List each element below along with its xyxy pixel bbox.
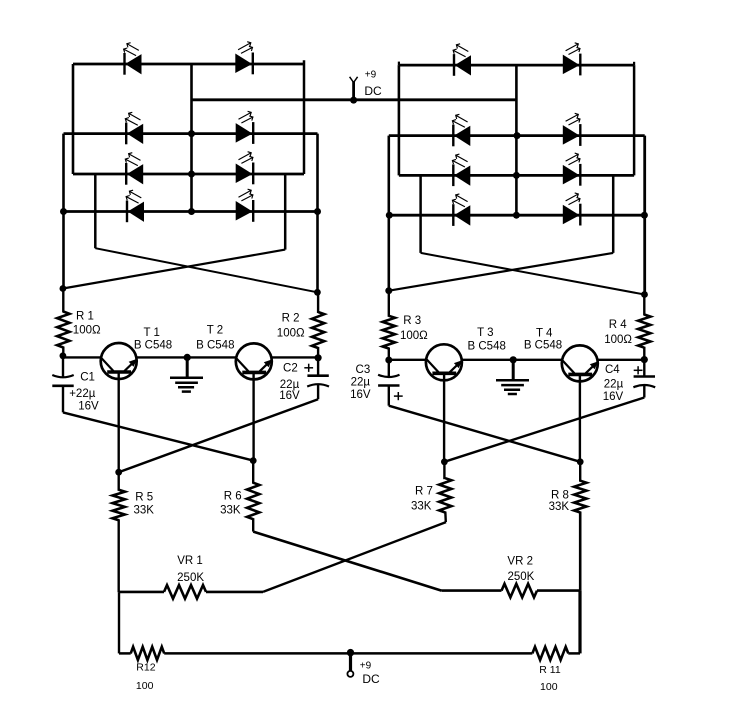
label R7 [415,486,433,498]
wire row4 right-bank [389,214,645,217]
wire R3 to T3 base [389,359,426,361]
svg-text:250K: 250K [177,572,204,584]
label C3 [356,364,371,376]
label VR1 [177,555,203,567]
node row4/left rail right-bank [386,212,393,219]
label C2 [283,363,298,375]
wire R1 to T1 base [63,356,101,358]
label T3 type [468,340,506,352]
wire outer-left rail (row2 to R1) [62,134,65,289]
label DC (bottom) [362,672,380,686]
node R1 top [60,285,67,292]
node R3 top [385,287,392,294]
wire diagonal D to R3 node [389,253,613,291]
label VR2 value [507,571,534,583]
label R3 [403,315,421,327]
node R4 top [641,291,648,298]
wire hang vertical C (row3 down) [419,175,422,253]
label C4 value [604,379,624,391]
wire hang vertical A (row3 down) [94,174,97,248]
node R5 top [115,469,122,476]
svg-text:DC: DC [364,84,382,98]
capacitor C1 [52,356,73,413]
svg-text:33K: 33K [411,501,432,513]
wire T1 to ground [136,356,187,358]
svg-text:R 3: R 3 [403,315,421,327]
svg-text:+9: +9 [365,69,377,80]
label C4 voltage [603,391,624,403]
label R1 [76,310,94,322]
svg-text:B C548: B C548 [196,339,234,351]
node +9 supply tap [350,97,357,104]
wire center vertical right-bank (row1-row4) [515,65,518,215]
label R4 [609,319,628,331]
node row2/center [188,130,195,137]
label T2 type [196,339,234,351]
wire R5 column to bottom rail [118,592,120,653]
label R1 value [73,325,101,337]
wire ground to T2 [187,356,236,358]
label C3 voltage [350,389,371,401]
node row4/left rail [60,208,67,215]
wire T3 down-lead [443,374,445,462]
label VR2 [507,555,533,567]
node R3 bottom [385,357,392,364]
node ground left [184,354,191,361]
svg-text:16V: 16V [279,390,300,402]
wire T2 down-lead [252,373,254,460]
svg-text:C1: C1 [80,371,95,383]
resistor R12 [131,647,165,660]
node R8 top [577,458,584,465]
transistor T3 [426,344,463,380]
plus C4 [634,366,643,374]
svg-text:R 2: R 2 [282,312,300,324]
label C1 voltage [78,401,99,413]
svg-text:100Ω: 100Ω [400,330,428,342]
transistor T4 [562,345,599,381]
svg-text:VR 2: VR 2 [507,555,533,567]
resistor R8 [574,462,586,591]
resistor R7 [439,462,451,522]
svg-text:R 6: R 6 [224,491,242,503]
label R11 value [540,681,558,693]
node row3/center [188,171,195,178]
label R2 [282,312,300,324]
label R7 value [411,501,432,513]
node row4/center [188,208,195,215]
node R4 bottom [641,356,648,363]
svg-text:33K: 33K [220,505,241,517]
wire inner-left vertical (row1-row3) [72,64,75,174]
label R12 value [136,680,154,692]
node row4/center right-bank [513,212,520,219]
wire outer-right rail (row2 to R2) [316,134,319,293]
wire bottom rail right segment [568,652,580,655]
wire T1 down-lead [117,373,119,472]
label T4 [536,328,553,340]
wire diagonal C to R4 node [421,253,645,295]
wire row2 right-bank [389,134,645,137]
node R7 top [441,458,448,465]
transistor T1 [101,343,138,379]
wire T2 to R2 [272,356,319,358]
wire outer-right rail right-bank (row2 to R4) [643,136,646,295]
plus C2 [304,364,313,372]
wire R8 column to bottom rail [578,591,581,654]
node row4/right rail right-bank [641,212,648,219]
svg-text:100Ω: 100Ω [604,334,632,346]
label R3 value [400,330,428,342]
LED D3 [125,112,143,144]
resistor R6 [247,461,259,532]
wire row2 left-bank [64,132,318,135]
wire T4 to R4 [598,359,645,361]
node R6 top [250,457,257,464]
wire row1 right-bank [399,64,634,67]
svg-text:VR 1: VR 1 [177,555,203,567]
potentiometer VR1 [119,585,263,599]
wire bottom rail left segment [119,652,131,655]
ground (left) [170,357,203,391]
label R5 [135,491,153,503]
LED D4 [236,111,254,144]
label T1 type [134,339,172,351]
terminal +9 DC top [350,77,358,83]
svg-text:33K: 33K [549,501,570,513]
svg-text:R12: R12 [136,661,155,673]
node R1 bottom [60,352,67,359]
resistor R5 [113,472,125,592]
svg-text:R 1: R 1 [76,310,94,322]
svg-text:100: 100 [136,680,154,692]
resistor R11 [532,647,568,660]
svg-text:100Ω: 100Ω [73,325,101,337]
svg-text:33K: 33K [133,505,154,517]
resistor R4 [638,295,650,360]
wire hang vertical B (row3 down) [284,174,287,250]
wire row3 right-bank [399,174,634,177]
svg-text:T 1: T 1 [143,327,159,339]
label C4 [605,364,620,376]
svg-text:B C548: B C548 [134,339,172,351]
capacitor C3 [378,360,399,406]
label R6 [224,491,242,503]
label C1 value [69,388,96,400]
label T1 [143,327,159,339]
label T2 [207,325,223,337]
ground (right) [496,360,529,394]
wire R6 to VR2 (diagonal) [253,532,441,591]
node ground right [510,356,517,363]
label R8 [551,489,569,501]
wire T4 down-lead [579,375,581,461]
label DC (top) [364,84,382,98]
LED D8 [236,189,254,222]
svg-text:R 7: R 7 [415,486,433,498]
label R12 [136,661,155,673]
node row3/center right-bank [513,172,520,179]
label R4 value [604,334,632,346]
LED D15 [452,194,470,226]
svg-text:B C548: B C548 [524,339,562,351]
svg-text:+9: +9 [360,660,372,671]
label +9 (top) [365,69,377,80]
resistor R1 [57,289,69,356]
transistor T2 [236,343,273,379]
wire inner-right vertical right-bank (row1-row3) [633,65,636,175]
LED D6 [236,152,254,185]
LED D5 [125,153,143,185]
svg-text:22µ: 22µ [351,376,371,388]
wire row4 left-bank [64,210,318,213]
capacitor C2 [307,358,329,399]
wire C2 to R5 node (diagonal) [119,399,318,472]
wire hang vertical D (row3 down) [612,175,615,253]
label R11 [539,664,561,676]
svg-text:C4: C4 [605,364,620,376]
wire T3 to ground [462,359,514,361]
svg-text:B C548: B C548 [468,340,506,352]
LED D12 [563,113,581,146]
svg-text:R 5: R 5 [135,491,153,503]
wire C3 to R8 node (diagonal) [389,406,580,462]
svg-text:T 3: T 3 [477,327,493,339]
svg-text:100: 100 [540,681,558,693]
wire inner-right vertical (row1-row3) [303,60,306,174]
label VR1 value [177,572,204,584]
svg-text:16V: 16V [603,391,624,403]
resistor R2 [312,292,324,358]
label R8 value [549,501,570,513]
LED D11 [452,114,470,146]
svg-text:R 4: R 4 [609,319,628,331]
svg-text:T 2: T 2 [207,325,223,337]
wire +9 supply rail [192,98,517,101]
label R6 value [220,505,241,517]
wire inner-left vertical right-bank (row1-row3) [398,65,401,175]
node R2 bottom [315,354,322,361]
LED D16 [563,193,581,226]
svg-text:100Ω: 100Ω [277,328,305,340]
svg-text:C2: C2 [283,363,298,375]
node row4/right rail [314,208,321,215]
node row2/center right-bank [514,132,521,139]
LED D2 [235,42,253,75]
wire C1 to R6 node (diagonal) [63,412,253,460]
svg-text:22µ: 22µ [604,379,624,391]
svg-text:C3: C3 [356,364,371,376]
tick row1 right-bank left end [398,62,400,66]
wire center vertical left-bank (row1-row4) [190,64,193,212]
label T3 [477,327,493,339]
svg-text:T 4: T 4 [536,328,553,340]
label +9 (bottom) [360,660,372,671]
resistor R3 [383,291,395,360]
terminal +9 DC bottom [347,671,353,677]
LED D9 [453,44,471,76]
svg-text:16V: 16V [350,389,371,401]
wire outer-left rail right-bank (row2 to R3) [387,136,390,291]
label R2 value [277,328,305,340]
LED D7 [126,190,144,222]
potentiometer VR2 [441,584,580,598]
wire bottom rail center segment [164,652,532,655]
LED D13 [452,154,470,186]
wire C4 to R7 node (diagonal) [444,398,644,462]
svg-text:16V: 16V [78,401,99,413]
label C3 value [351,376,371,388]
svg-text:250K: 250K [507,571,534,583]
LED D14 [563,153,581,186]
svg-text:+22µ: +22µ [69,388,96,400]
label C2 value [280,379,300,391]
LED D10 [563,43,581,76]
svg-text:DC: DC [362,672,380,686]
label C2 voltage [279,390,300,402]
label C1 [80,371,95,383]
svg-text:R 8: R 8 [551,489,569,501]
tick row1 right-bank right end [633,62,635,65]
node R2 top [314,289,321,296]
wire +9 terminal stem [352,81,355,98]
wire +9 bottom stem [349,653,352,671]
node +9 bottom tap [347,649,354,656]
plus C3 [394,392,403,400]
label T4 type [524,339,562,351]
LED D1 [124,43,142,75]
capacitor C4 [633,360,655,398]
svg-text:R 11: R 11 [539,664,561,676]
wire diagonal A to R2 node [95,248,317,292]
wire row3 left-bank [73,173,304,176]
wire ground to T4 [513,359,562,361]
wire VR1 to R7 (diagonal) [263,522,446,592]
wire row1 left-bank [73,63,304,66]
label R5 value [133,505,154,517]
wire diagonal B to R1 node [63,250,285,289]
